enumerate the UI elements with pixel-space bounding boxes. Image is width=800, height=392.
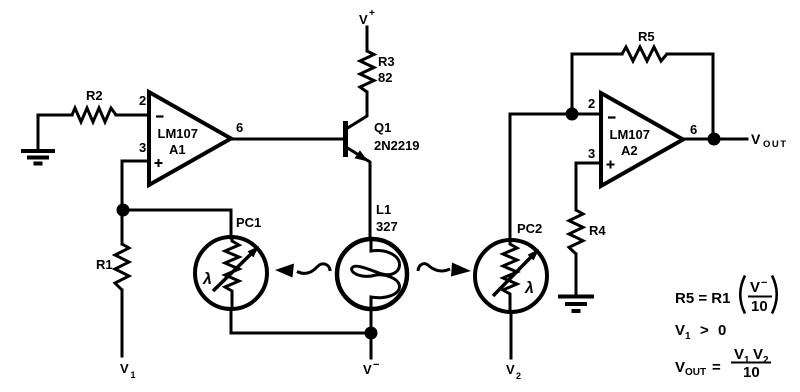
formula R5 = R1 (V-/10): [675, 276, 777, 316]
wire A2 output to VOUT: [683, 138, 747, 141]
svg-text:V: V: [359, 12, 368, 27]
feedback wire from R5 to output: [667, 54, 713, 139]
svg-text:0: 0: [718, 322, 726, 339]
resistor R3: [360, 51, 374, 92]
svg-text:LM107: LM107: [610, 127, 650, 142]
svg-text:V: V: [120, 361, 129, 376]
svg-text:OUT: OUT: [763, 139, 788, 150]
svg-text:R4: R4: [589, 223, 606, 238]
wire R3 to V+: [366, 27, 369, 51]
svg-text:−: −: [373, 359, 379, 371]
svg-text:1: 1: [685, 331, 691, 342]
photocell PC1: [195, 237, 267, 309]
wire R4 to ground: [575, 254, 578, 296]
photon arrow (lamp to PC1): [275, 264, 330, 278]
wire A1 pin 3 to node A: [122, 161, 149, 210]
wire ground to R2: [38, 114, 72, 117]
svg-text:2: 2: [588, 96, 595, 111]
svg-text:LM107: LM107: [158, 126, 198, 141]
svg-text:V: V: [675, 322, 685, 339]
svg-text:V: V: [750, 279, 760, 296]
feedback wire up from pin 2 node: [572, 54, 622, 114]
wire L1 bottom to V- node: [370, 308, 373, 333]
svg-text:327: 327: [376, 219, 398, 234]
wire R1 to V1: [121, 290, 124, 356]
svg-text:PC1: PC1: [236, 215, 261, 230]
svg-text:V: V: [506, 362, 515, 377]
svg-text:R3: R3: [378, 54, 395, 69]
resistor R5: [622, 47, 667, 61]
svg-text:λ: λ: [524, 280, 534, 297]
svg-text:A1: A1: [169, 142, 186, 157]
svg-text:3: 3: [139, 140, 146, 155]
svg-text:R5: R5: [638, 29, 655, 44]
svg-text:V: V: [363, 362, 372, 377]
label V1: [120, 361, 136, 380]
photon arrow (lamp to PC2): [418, 263, 471, 277]
svg-text:6: 6: [236, 120, 243, 135]
label V2: [506, 362, 521, 381]
op-amp U1 A1 LM107: [149, 92, 231, 185]
svg-text:10: 10: [743, 364, 760, 381]
svg-text:V: V: [753, 346, 763, 363]
svg-text:A2: A2: [621, 143, 638, 158]
svg-text:3: 3: [588, 146, 595, 161]
svg-text:λ: λ: [202, 271, 212, 288]
svg-text:+: +: [369, 8, 375, 19]
label V+: [359, 8, 375, 27]
lamp L1 327: [337, 239, 407, 310]
svg-text:V: V: [675, 359, 685, 376]
label V-: [363, 359, 379, 377]
node A junction dot: [117, 204, 130, 217]
photocell PC2: [475, 240, 547, 312]
svg-text:82: 82: [378, 70, 392, 85]
svg-text:2: 2: [516, 371, 521, 381]
junction dot at A2 pin 2: [566, 108, 579, 121]
svg-text:L1: L1: [376, 202, 391, 217]
svg-text:2: 2: [139, 93, 146, 108]
wire A1 output to Q1 base: [231, 138, 343, 141]
ground (under R4): [558, 297, 594, 312]
svg-text:10: 10: [751, 298, 768, 315]
svg-text:OUT: OUT: [685, 367, 706, 378]
svg-text:PC2: PC2: [517, 221, 542, 236]
wire R2 to A1 pin 2: [116, 114, 149, 117]
formula VOUT = V1V2/10: [675, 346, 771, 381]
resistor R4: [569, 210, 583, 254]
wire node A to R1: [121, 210, 124, 244]
wire PC1 bottom to V- node: [231, 309, 371, 333]
resistor R1: [115, 244, 129, 290]
wire node A to PC1 top: [123, 210, 231, 238]
formula V1 > 0: [675, 322, 726, 342]
svg-text:V: V: [751, 131, 761, 147]
junction dot at output: [708, 133, 721, 146]
wire V- stub: [370, 333, 373, 358]
svg-text:R1: R1: [96, 257, 113, 272]
svg-text:R2: R2: [86, 88, 103, 103]
svg-text:>: >: [700, 322, 709, 339]
wire A2 pin 3 to R4: [576, 163, 601, 210]
wire PC2 top to A2 pin 2: [510, 114, 601, 240]
transistor Q2 Q1 2N2219: [346, 92, 371, 240]
svg-text:Q1: Q1: [374, 120, 391, 135]
ground (left input): [21, 115, 55, 164]
junction dot at V- node: [365, 327, 378, 340]
svg-text:1: 1: [131, 370, 136, 380]
svg-text:V: V: [734, 346, 744, 363]
label VOUT: [751, 131, 788, 150]
svg-text:2N2219: 2N2219: [374, 138, 420, 153]
op-amp U2 A2 LM107: [601, 93, 683, 186]
svg-text:6: 6: [690, 122, 697, 137]
svg-text:2: 2: [763, 355, 769, 366]
svg-text:R5 = R1: R5 = R1: [675, 290, 730, 307]
resistor R2: [72, 108, 116, 122]
svg-text:=: =: [712, 359, 721, 376]
wire PC2 bottom to V2: [510, 312, 513, 358]
svg-text:−: −: [761, 277, 767, 289]
